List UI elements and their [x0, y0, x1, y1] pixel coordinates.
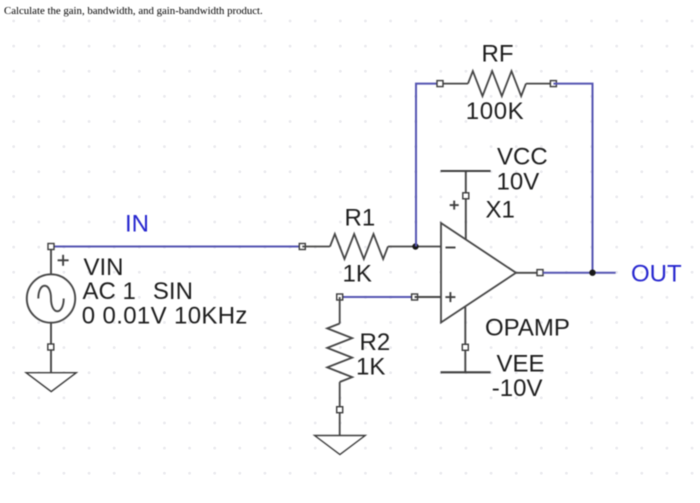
svg-text:RF: RF	[482, 40, 514, 67]
svg-text:100K: 100K	[466, 98, 524, 125]
svg-text:10V: 10V	[497, 169, 540, 196]
terminal square IN right	[299, 244, 305, 250]
supply bar VCC	[441, 170, 491, 172]
wire VIN to ground	[50, 323, 52, 373]
svg-text:VIN: VIN	[84, 254, 124, 281]
wire feedback right vertical	[553, 84, 592, 273]
wire output stub	[516, 272, 537, 274]
terminal square output	[537, 270, 543, 276]
terminal square RF right	[550, 81, 556, 87]
wire OUT net	[543, 272, 616, 274]
resistor RF	[440, 71, 553, 96]
terminal square VCC pin	[463, 193, 469, 199]
svg-text:VCC: VCC	[497, 143, 548, 170]
svg-text:AC 1: AC 1	[83, 278, 136, 305]
minus input marker	[446, 247, 456, 249]
resistor R2	[327, 297, 352, 436]
terminal square plus-net right	[412, 294, 418, 300]
svg-text:R1: R1	[345, 205, 376, 232]
plus marker VIN	[58, 255, 69, 266]
svg-text:Calculate the gain, bandwidth,: Calculate the gain, bandwidth, and gain-…	[4, 5, 263, 17]
voltage source VIN	[27, 274, 75, 322]
terminal square plus-net left	[337, 294, 343, 300]
terminal square VEE pin	[462, 344, 468, 350]
svg-text:R2: R2	[360, 329, 391, 356]
svg-text:VEE: VEE	[497, 350, 545, 377]
terminal square VIN top	[48, 244, 54, 250]
svg-text:SIN: SIN	[153, 278, 193, 305]
junction at output node	[589, 270, 595, 276]
svg-text:-10V: -10V	[492, 375, 543, 402]
wire VIN top pin	[50, 247, 52, 275]
svg-text:1K: 1K	[356, 354, 385, 381]
resistor R1	[302, 234, 441, 259]
wire feedback left vertical	[416, 84, 440, 247]
svg-text:1K: 1K	[343, 260, 372, 287]
terminal square R2 bottom	[337, 407, 343, 413]
svg-text:OUT: OUT	[631, 261, 682, 288]
plus input marker	[445, 292, 455, 302]
ground GND2	[315, 436, 366, 455]
terminal square VIN bottom	[48, 344, 54, 350]
wire VEE pin	[464, 307, 466, 373]
wire VCC pin	[465, 171, 467, 239]
svg-text:OPAMP: OPAMP	[485, 315, 570, 342]
wire to noninverting input	[415, 296, 441, 298]
wire noninverting net	[340, 296, 415, 298]
junction at inverting node	[412, 243, 418, 249]
svg-text:X1: X1	[486, 196, 515, 223]
wire IN net	[51, 246, 302, 248]
op-amp X1 body	[441, 223, 516, 323]
ground GND1	[26, 373, 76, 392]
plus marker VCC pin	[450, 201, 459, 210]
supply bar VEE	[441, 371, 491, 373]
svg-text:IN: IN	[125, 210, 149, 237]
svg-text:0 0.01V 10KHz: 0 0.01V 10KHz	[82, 302, 248, 329]
terminal square RF left	[437, 81, 443, 87]
